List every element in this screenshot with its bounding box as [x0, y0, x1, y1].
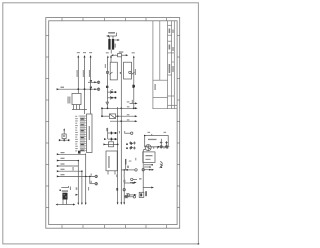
zone ticks bottom edge	[62, 225, 167, 229]
transistor Q1	[160, 162, 163, 169]
net stub y=103.4	[130, 102, 136, 104]
terminal net y=133.2	[124, 132, 130, 134]
bottom left opto T2	[58, 186, 73, 205]
plug terminal on bus	[123, 189, 125, 191]
vertical bus labels	[77, 70, 78, 77]
blob on right lead	[132, 85, 135, 88]
terminal row y=169.7	[142, 169, 144, 171]
cap C7 and net y=169.9	[125, 159, 126, 165]
arrow net y=187.5	[143, 187, 151, 189]
ground G1	[106, 102, 109, 104]
zone ticks top edge	[62, 18, 167, 21]
regulator U3	[143, 152, 155, 167]
fuse F1 row	[114, 54, 127, 57]
caps cluster left of PSU	[130, 142, 133, 149]
misc tiny labels	[77, 52, 166, 177]
battery BT1 cluster	[107, 33, 117, 54]
net y=121.2	[110, 120, 135, 122]
net y=144.4 with diode cluster	[104, 142, 118, 147]
net y=89.2	[57, 88, 100, 91]
net with terminals y=82	[88, 81, 100, 84]
zone ticks left edge	[46, 36, 49, 208]
net y=108.3	[102, 108, 135, 116]
left terminal y=179.4	[133, 178, 137, 180]
relay K2	[124, 58, 135, 109]
bottom right cluster	[139, 191, 144, 197]
net stub y=183	[124, 182, 133, 184]
connector J1	[87, 114, 93, 153]
sheet frame outer	[46, 18, 180, 229]
title block text marks	[155, 29, 174, 91]
schematic	[78, 57, 111, 115]
sheet frame inner	[49, 21, 177, 225]
dip switch cluster A	[108, 90, 117, 99]
relay K3	[106, 151, 117, 175]
net y=116.2 with filter box	[102, 114, 135, 119]
bottom mid vertical terminations	[76, 194, 79, 196]
relay K1	[106, 58, 117, 109]
left edge arrows lower	[130, 182, 134, 184]
zone ticks right edge	[177, 36, 180, 208]
verticals below stubs	[78, 154, 95, 203]
page border corner mark	[198, 243, 200, 245]
center buses down	[118, 57, 125, 203]
dip switch cluster B	[108, 128, 118, 141]
transformer T1	[72, 93, 87, 109]
page border	[3, 3, 199, 244]
crystal X2	[59, 130, 69, 140]
PSU module U2	[145, 134, 169, 149]
diode D1 row (right)	[143, 145, 169, 191]
left input stubs	[58, 154, 96, 176]
power net arrows row (y=55.5)	[77, 57, 79, 94]
title block (rotated, top-right corner)	[153, 21, 177, 109]
diode D4 bottom	[124, 196, 133, 198]
